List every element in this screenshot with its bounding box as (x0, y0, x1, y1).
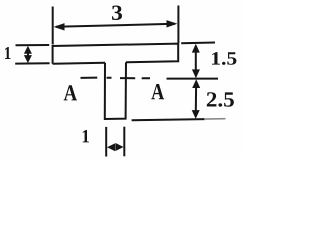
label 3 (top) (112, 6, 122, 21)
dim 1.5 arrowhead up (192, 44, 200, 53)
section line A-A dash segments (81, 78, 219, 79)
arrowhead left of dim 3 (54, 23, 65, 30)
dimension line 3 (56, 24, 175, 27)
dim 1.5 arrowhead down (192, 69, 200, 78)
bottom dim extension line right (123, 127, 125, 157)
left dim arrowhead up (24, 46, 32, 54)
dim 2.5 arrowhead up (192, 79, 200, 88)
bottom dim arrowhead right (116, 143, 124, 151)
bottom dim extension line left (105, 127, 107, 157)
extension line right of top dimension (177, 6, 179, 44)
label 1 (bottom) (83, 130, 89, 142)
left dim arrow shaft (27, 51, 29, 59)
baseline faded right portion (204, 118, 226, 120)
left dim tick top (16, 44, 50, 46)
arrowhead right of dim 3 (167, 20, 178, 27)
dim line 1.5 shaft (195, 50, 197, 72)
label A (left) (64, 85, 77, 100)
T-section stem outline (105, 62, 126, 119)
right dim tick top (181, 42, 215, 45)
extension line left of top dimension (52, 7, 54, 45)
left dim tick bottom (15, 62, 49, 64)
label 2.5 (207, 92, 234, 107)
label 1 (left) (5, 47, 11, 59)
baseline bottom reference line (132, 119, 205, 120)
bottom dim arrowhead left (107, 143, 115, 151)
label A (right) (151, 84, 164, 99)
left dim arrowhead down (24, 55, 32, 63)
dim line 2.5 shaft (195, 86, 197, 112)
T-section flange outline (53, 44, 179, 64)
label 1.5 (212, 52, 236, 65)
dim 2.5 arrowhead down (192, 110, 200, 119)
